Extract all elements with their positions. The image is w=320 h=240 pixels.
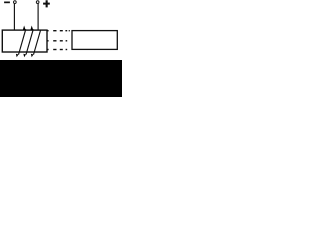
dashed link row 3 (solar cell to control box, bottom): [47, 49, 67, 50]
light arrow 1 (double-ended, through cell): [16, 26, 26, 58]
solar cell PV1 body: [2, 30, 47, 52]
plus polarity label: [43, 0, 50, 7]
black panel below schematic: [0, 60, 122, 97]
dashed link row 2 (solar cell to control box, middle): [47, 40, 67, 41]
terminal node − (open circle): [14, 1, 17, 4]
light arrow 2 (double-ended, through cell): [23, 26, 33, 58]
light level control box (linked component): [72, 31, 117, 50]
minus polarity label: [4, 2, 10, 4]
wire from − terminal to solar cell: [13, 4, 15, 31]
dashed link row 1 (solar cell to control box, top): [47, 30, 69, 31]
background: [0, 0, 122, 97]
wire from + terminal to solar cell: [37, 4, 39, 31]
light arrow 3 (arrowhead below cell): [31, 30, 41, 57]
terminal node + (open circle): [36, 1, 39, 4]
